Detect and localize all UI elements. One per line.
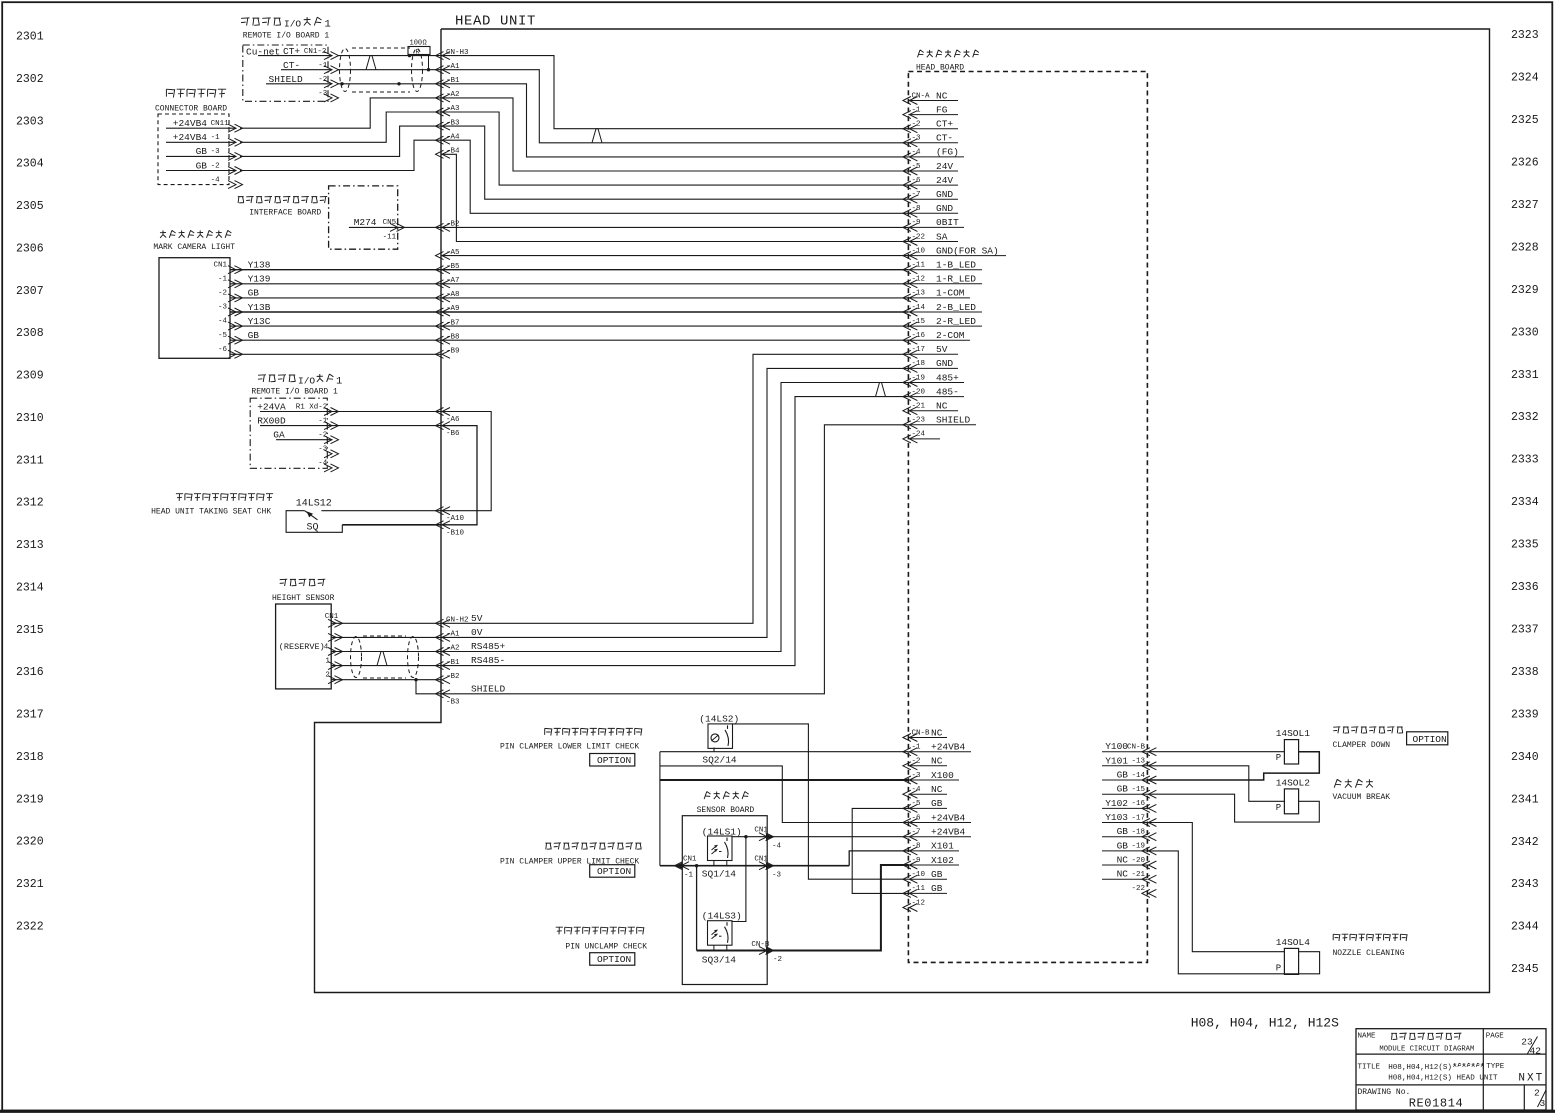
svg-text:INTERFACE BOARD: INTERFACE BOARD [249,209,321,218]
svg-text:2343: 2343 [1511,878,1539,891]
svg-text:-14: -14 [912,304,926,312]
svg-text:-11: -11 [912,262,926,270]
svg-text:GND: GND [936,203,953,214]
svg-text:H08,H04,H12(S): H08,H04,H12(S) [1388,1064,1452,1072]
svg-text:SQ2/14: SQ2/14 [702,754,737,765]
svg-text:GB: GB [248,288,260,299]
svg-text:Y13C: Y13C [248,316,271,327]
svg-text:PIN UNCLAMP CHECK: PIN UNCLAMP CHECK [565,942,647,951]
svg-text:2319: 2319 [16,793,44,806]
svg-text:MARK CAMERA LIGHT: MARK CAMERA LIGHT [153,243,235,252]
svg-text:GB: GB [931,869,943,880]
svg-text:-7: -7 [912,829,921,837]
svg-text:-4: -4 [912,149,922,157]
svg-text:-2: -2 [773,956,782,964]
svg-text:-B2: -B2 [446,673,460,681]
svg-text:14SOL1: 14SOL1 [1276,728,1311,739]
svg-text:-4: -4 [912,786,922,794]
svg-text:2330: 2330 [1511,326,1539,339]
svg-text:-15: -15 [912,318,926,326]
svg-text:CLAMPER DOWN: CLAMPER DOWN [1333,741,1391,750]
svg-text:SHIELD: SHIELD [936,415,971,426]
svg-text:Y139: Y139 [248,274,271,285]
svg-text:-3: -3 [318,90,328,98]
svg-text:R: R [416,48,420,55]
svg-text:-1: -1 [684,871,694,879]
svg-text:X101: X101 [931,841,954,852]
svg-text:HEAD UNIT TAKING SEAT CHK: HEAD UNIT TAKING SEAT CHK [151,508,271,517]
svg-text:OPTION: OPTION [1413,734,1447,745]
svg-text:NC: NC [936,401,948,412]
svg-text:Y102: Y102 [1105,798,1128,809]
svg-text:-4: -4 [772,842,782,850]
svg-text:5V: 5V [936,344,948,355]
svg-text:CN1: CN1 [213,261,227,269]
svg-text:-2: -2 [218,290,227,298]
svg-text:-5: -5 [218,332,228,340]
svg-text:-5: -5 [912,800,922,808]
svg-text:2341: 2341 [1511,793,1539,806]
svg-text:-7: -7 [912,191,921,199]
svg-text:2313: 2313 [16,539,44,552]
svg-text:0V: 0V [471,627,483,638]
svg-text:-3: -3 [218,304,228,312]
svg-text:Y138: Y138 [248,260,271,271]
svg-text:RS485+: RS485+ [471,641,506,652]
svg-text:-9: -9 [912,857,921,865]
svg-text:2-COM: 2-COM [936,330,965,341]
svg-text:14LS12: 14LS12 [296,499,332,510]
svg-text:SENSOR BOARD: SENSOR BOARD [697,806,755,815]
svg-text:FG: FG [936,104,948,115]
svg-text:TITLE: TITLE [1358,1064,1381,1072]
svg-text:-1: -1 [318,417,328,425]
svg-text:OPTION: OPTION [597,866,631,877]
svg-text:SA: SA [936,231,948,242]
svg-text:2340: 2340 [1511,751,1539,764]
svg-text:CN-B: CN-B [751,941,770,949]
svg-text:-1: -1 [211,134,221,142]
svg-text:-3: -3 [318,446,328,454]
svg-text:2329: 2329 [1511,284,1539,297]
svg-text:-8: -8 [912,205,921,213]
svg-text:4: 4 [324,643,329,651]
svg-text:+24VB4: +24VB4 [931,827,966,838]
svg-text:CT-: CT- [936,133,953,144]
svg-text:GB: GB [1117,770,1129,781]
svg-text:2317: 2317 [16,709,44,722]
svg-text:GB: GB [1117,840,1129,851]
svg-text:2345: 2345 [1511,963,1539,976]
svg-text:+24VB4: +24VB4 [931,812,966,823]
svg-text:2325: 2325 [1511,114,1539,127]
svg-text:CN-B: CN-B [1127,744,1146,752]
svg-text:+24VB4: +24VB4 [173,118,208,129]
svg-text:PAGE: PAGE [1486,1033,1505,1041]
svg-text:GB: GB [931,798,943,809]
svg-text:P: P [1276,753,1281,763]
svg-text:14SOL2: 14SOL2 [1276,777,1311,788]
svg-text:-19: -19 [912,374,926,382]
svg-text:I/O: I/O [284,19,301,30]
svg-text:-6: -6 [912,814,922,822]
svg-text:GB: GB [196,146,208,157]
svg-text:M274: M274 [354,217,377,228]
svg-text:HEAD UNIT: HEAD UNIT [455,14,536,30]
svg-text:RX00D: RX00D [257,415,286,426]
svg-text:NOZZLE CLEANING: NOZZLE CLEANING [1333,949,1405,958]
svg-text:-17: -17 [1131,814,1145,822]
svg-text:VACUUM BREAK: VACUUM BREAK [1333,793,1391,802]
svg-text:Y100: Y100 [1105,741,1128,752]
svg-text:-23: -23 [912,417,926,425]
svg-text:-6: -6 [218,346,228,354]
svg-text:2333: 2333 [1511,454,1539,467]
svg-text:-14: -14 [1131,772,1145,780]
svg-text:NAME: NAME [1358,1033,1377,1041]
svg-text:2320: 2320 [16,836,44,849]
svg-text:2305: 2305 [16,200,44,213]
svg-text:-18: -18 [1131,829,1145,837]
svg-text:TYPE: TYPE [1486,1063,1505,1071]
svg-text:0BIT: 0BIT [936,217,959,228]
svg-text:-B9: -B9 [446,348,460,356]
svg-text:-2: -2 [318,76,327,84]
svg-text:24V: 24V [936,161,953,172]
svg-text:+24VB4: +24VB4 [173,132,208,143]
svg-text:-3: -3 [912,135,922,143]
svg-text:485-: 485- [936,386,959,397]
svg-text:-22: -22 [912,233,926,241]
svg-text:-11: -11 [912,885,926,893]
svg-text:2324: 2324 [1511,72,1539,85]
svg-text:-12: -12 [912,276,926,284]
svg-text:2311: 2311 [16,454,44,467]
svg-text:CONNECTOR BOARD: CONNECTOR BOARD [155,105,227,114]
svg-text:1-R_LED: 1-R_LED [936,274,976,285]
svg-text:CN1: CN1 [683,855,697,863]
svg-text:GB: GB [196,160,208,171]
svg-text:GND(FOR SA): GND(FOR SA) [936,245,999,256]
svg-text:-13: -13 [912,290,926,298]
svg-text:2335: 2335 [1511,539,1539,552]
svg-text:REMOTE I/O BOARD 1: REMOTE I/O BOARD 1 [251,387,338,396]
svg-text:-1: -1 [318,62,328,70]
svg-text:NC: NC [931,727,943,738]
svg-text:2310: 2310 [16,412,44,425]
svg-text:SHIELD: SHIELD [471,683,506,694]
svg-text:-5: -5 [912,163,922,171]
svg-text:2334: 2334 [1511,496,1539,509]
svg-text:NC: NC [1117,855,1129,866]
svg-text:2-B_LED: 2-B_LED [936,302,976,313]
svg-text:2-R_LED: 2-R_LED [936,316,976,327]
svg-text:-20: -20 [912,388,926,396]
svg-text:2321: 2321 [16,878,44,891]
svg-text:2314: 2314 [16,581,44,594]
svg-text:-2: -2 [912,758,921,766]
svg-text:-1: -1 [912,744,922,752]
svg-text:2316: 2316 [16,666,44,679]
svg-text:2344: 2344 [1511,921,1539,934]
svg-text:2331: 2331 [1511,369,1539,382]
svg-text:GB: GB [931,883,943,894]
svg-text:2336: 2336 [1511,581,1539,594]
svg-text:NC: NC [1117,869,1129,880]
svg-text:-B6: -B6 [446,430,460,438]
svg-text:-11: -11 [383,234,397,242]
svg-text:RE01814: RE01814 [1409,1097,1464,1111]
svg-text:+24VB4: +24VB4 [931,742,966,753]
svg-text:-3: -3 [772,871,782,879]
svg-text:SQ3/14: SQ3/14 [702,954,737,965]
svg-text:OPTION: OPTION [597,755,631,766]
svg-text:1: 1 [325,19,331,31]
svg-text:GB: GB [248,330,260,341]
svg-text:GND: GND [936,189,953,200]
svg-text:H08, H04, H12, H12S: H08, H04, H12, H12S [1191,1016,1339,1031]
svg-text:-2: -2 [912,121,921,129]
svg-text:REMOTE I/O BOARD 1: REMOTE I/O BOARD 1 [243,32,330,41]
svg-text:GB: GB [1117,826,1129,837]
svg-text:1: 1 [325,657,330,665]
svg-text:-22: -22 [1131,885,1145,893]
svg-text:2303: 2303 [16,115,44,128]
svg-text:(14LS3): (14LS3) [702,910,742,921]
svg-text:1-COM: 1-COM [936,288,965,299]
svg-text:2: 2 [325,672,330,680]
svg-text:-8: -8 [912,843,921,851]
svg-text:-B10: -B10 [446,529,465,537]
svg-text:SQ: SQ [307,522,319,533]
svg-text:2318: 2318 [16,751,44,764]
svg-text:-A10: -A10 [446,515,465,523]
svg-text:CN-B: CN-B [912,729,931,737]
svg-text:Y103: Y103 [1105,812,1128,823]
svg-text:+24VA: +24VA [257,401,286,412]
svg-text:I/O: I/O [298,376,315,387]
svg-text:CN-A: CN-A [912,92,931,100]
svg-text:-16: -16 [1131,800,1145,808]
svg-text:NC: NC [931,756,943,767]
svg-text:1: 1 [336,376,342,388]
svg-text:HEIGHT SENSOR: HEIGHT SENSOR [272,594,335,603]
svg-text:-10: -10 [912,247,926,255]
svg-text:-21: -21 [1131,871,1145,879]
svg-text:P: P [1276,803,1281,813]
svg-text:2306: 2306 [16,242,44,255]
svg-text:2312: 2312 [16,497,44,510]
svg-text:2: 2 [1534,1088,1540,1099]
svg-text:2304: 2304 [16,158,44,171]
svg-text:-17: -17 [912,346,926,354]
svg-text:H08,H04,H12(S) HEAD UNIT: H08,H04,H12(S) HEAD UNIT [1388,1075,1498,1083]
svg-text:(FG): (FG) [936,147,959,158]
svg-text:RS485-: RS485- [471,655,505,666]
svg-text:-1: -1 [218,275,228,283]
svg-text:3: 3 [1540,1098,1546,1109]
svg-text:OPTION: OPTION [597,954,631,965]
svg-text:CN11: CN11 [211,120,230,128]
svg-text:5V: 5V [471,613,483,624]
svg-text:X100: X100 [931,770,954,781]
svg-text:GND: GND [936,358,953,369]
svg-text:-10: -10 [912,871,926,879]
svg-text:MODULE CIRCUIT DIAGRAM: MODULE CIRCUIT DIAGRAM [1379,1046,1474,1054]
svg-text:2309: 2309 [16,370,44,383]
svg-text:(RESERVE): (RESERVE) [279,642,325,652]
svg-text:CN1: CN1 [754,826,768,834]
svg-text:NXT: NXT [1518,1073,1544,1085]
svg-text:CN1-2: CN1-2 [304,48,327,56]
svg-text:X102: X102 [931,855,954,866]
svg-text:-B3: -B3 [446,698,460,706]
svg-text:-24: -24 [912,431,926,439]
svg-text:24V: 24V [936,175,953,186]
svg-text:-3: -3 [912,772,922,780]
svg-text:HEAD BOARD: HEAD BOARD [916,64,964,73]
svg-text:CN1: CN1 [754,855,768,863]
svg-text:-4: -4 [211,176,221,184]
svg-text:485+: 485+ [936,372,959,383]
svg-text:SQ1/14: SQ1/14 [702,868,737,879]
svg-text:Y13B: Y13B [248,302,271,313]
svg-text:-12: -12 [912,899,926,907]
svg-text:2332: 2332 [1511,411,1539,424]
svg-text:GB: GB [1117,784,1129,795]
svg-text:-1: -1 [912,106,922,114]
svg-text:Y101: Y101 [1105,755,1128,766]
svg-text:-20: -20 [1131,857,1145,865]
svg-text:2327: 2327 [1511,199,1539,212]
svg-text:-18: -18 [912,360,926,368]
svg-text:2302: 2302 [16,73,44,86]
svg-text:-15: -15 [1131,786,1145,794]
svg-text:2307: 2307 [16,285,44,298]
svg-text:2301: 2301 [16,31,44,44]
svg-text:2326: 2326 [1511,157,1539,170]
svg-text:2342: 2342 [1511,836,1539,849]
svg-text:-13: -13 [1131,758,1145,766]
svg-text:2322: 2322 [16,921,44,934]
svg-text:-2: -2 [318,432,327,440]
svg-text:2308: 2308 [16,327,44,340]
svg-text:2337: 2337 [1511,624,1539,637]
svg-text:14SOL4: 14SOL4 [1276,937,1311,948]
svg-text:PIN CLAMPER LOWER LIMIT CHECK: PIN CLAMPER LOWER LIMIT CHECK [500,743,639,752]
svg-text:2323: 2323 [1511,29,1539,42]
svg-text:2339: 2339 [1511,708,1539,721]
svg-text:NC: NC [936,90,948,101]
svg-text:2338: 2338 [1511,666,1539,679]
svg-text:P: P [1276,964,1281,974]
svg-text:-21: -21 [912,403,926,411]
svg-text:2328: 2328 [1511,241,1539,254]
svg-text:-3: -3 [211,148,221,156]
svg-text:(14LS2): (14LS2) [699,714,739,725]
svg-text:CT+: CT+ [936,119,953,130]
svg-text:-4: -4 [318,460,328,468]
svg-text:-16: -16 [912,332,926,340]
svg-text:NC: NC [931,784,943,795]
svg-text:DRAWING No.: DRAWING No. [1358,1088,1411,1097]
svg-text:-9: -9 [912,219,921,227]
svg-text:-4: -4 [218,318,228,326]
svg-text:-6: -6 [912,177,922,185]
svg-text:-2: -2 [211,162,220,170]
svg-text:1-B_LED: 1-B_LED [936,260,976,271]
svg-text:GA: GA [273,430,285,441]
svg-text:R1 Xd-2: R1 Xd-2 [296,403,328,411]
svg-text:2315: 2315 [16,624,44,637]
svg-text:-19: -19 [1131,843,1145,851]
